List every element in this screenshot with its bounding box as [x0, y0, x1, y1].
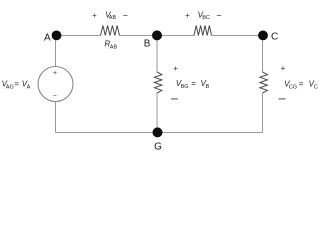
wire R_AB to B: [120, 35, 158, 37]
wire C down to right resistor: [262, 36, 264, 73]
svg-text:VAB: VAB: [105, 10, 116, 21]
svg-text:+: +: [173, 64, 178, 73]
resistor R_AB: [101, 26, 120, 36]
bottom wire: [56, 132, 263, 134]
svg-text:+: +: [53, 70, 57, 77]
resistor C-G: [260, 72, 268, 93]
voltage source V_AG: [38, 67, 73, 102]
svg-text:C: C: [271, 32, 278, 43]
node C: [258, 31, 268, 41]
wire source to bottom: [55, 102, 57, 133]
node A: [52, 31, 62, 41]
svg-text:VBG=VB: VBG=VB: [176, 79, 210, 90]
wire A down to source: [55, 36, 57, 67]
svg-text:VCG=VC: VCG=VC: [284, 80, 318, 91]
node B: [152, 30, 162, 40]
node G: [153, 127, 163, 137]
svg-text:A: A: [44, 32, 51, 43]
wire right resistor to bottom: [262, 93, 264, 133]
svg-text:+: +: [92, 11, 97, 20]
minus sign V_CG: [279, 98, 286, 100]
wire middle resistor to G: [156, 93, 158, 133]
wire B down to middle resistor: [156, 36, 158, 73]
minus sign V_BG: [171, 98, 178, 100]
svg-text:−: −: [216, 10, 221, 20]
svg-text:+: +: [185, 11, 190, 20]
wire B to R_BC: [157, 35, 194, 37]
svg-text:−: −: [53, 93, 57, 100]
svg-text:VAG=VA: VAG=VA: [2, 80, 31, 91]
wire R_BC to C: [212, 35, 263, 37]
resistor B-G: [154, 72, 162, 93]
svg-text:G: G: [154, 141, 162, 152]
svg-text:−: −: [123, 10, 128, 20]
svg-text:VBC: VBC: [198, 10, 210, 21]
svg-text:B: B: [144, 39, 151, 50]
resistor R_BC: [194, 26, 212, 36]
svg-text:+: +: [281, 64, 286, 73]
wire A to R_AB: [56, 35, 101, 37]
svg-text:RAB: RAB: [104, 39, 117, 50]
